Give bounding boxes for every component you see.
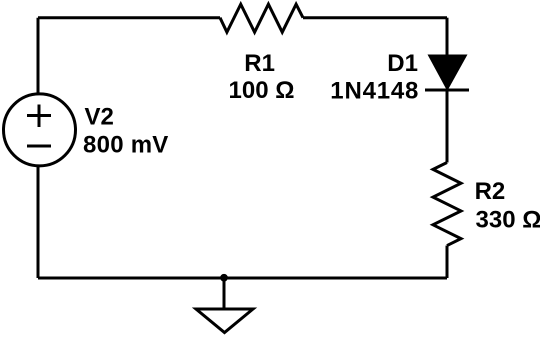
svg-text:1N4148: 1N4148 bbox=[330, 77, 419, 104]
svg-text:V2: V2 bbox=[85, 104, 114, 131]
ground bbox=[196, 278, 253, 333]
wire right upper vertical bbox=[446, 18, 449, 56]
wire top-left horizontal bbox=[38, 16, 220, 19]
resistor R1 bbox=[220, 4, 303, 32]
svg-text:330 Ω: 330 Ω bbox=[476, 207, 540, 234]
wire left upper vertical bbox=[37, 18, 40, 95]
wire right lower vertical bbox=[446, 246, 449, 278]
diode D1 bbox=[425, 55, 469, 92]
svg-text:R1: R1 bbox=[244, 50, 275, 77]
wire bottom horizontal bbox=[38, 277, 447, 280]
wire right middle vertical bbox=[446, 90, 449, 163]
wire top-right horizontal bbox=[303, 16, 447, 19]
voltage source V2 bbox=[4, 94, 76, 166]
svg-text:800 mV: 800 mV bbox=[83, 131, 169, 158]
junction dot bbox=[220, 274, 228, 282]
resistor R2 bbox=[433, 163, 461, 246]
svg-text:D1: D1 bbox=[387, 50, 418, 77]
svg-text:R2: R2 bbox=[475, 178, 506, 205]
wire left lower vertical bbox=[37, 165, 40, 278]
svg-text:100 Ω: 100 Ω bbox=[229, 77, 295, 104]
